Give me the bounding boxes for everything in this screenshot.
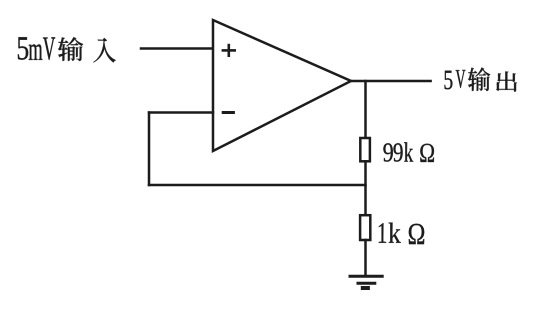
- label: 5V output text: [445, 68, 517, 92]
- op-amp plus pin marker: [223, 45, 235, 56]
- wire: R1 bottom through node A to R2: [364, 161, 367, 215]
- label: 1k ohm value: [379, 223, 424, 245]
- wire: R2 bottom to ground: [364, 240, 367, 276]
- label: 99k ohm value: [383, 142, 434, 162]
- op-amp minus pin marker: [223, 111, 233, 114]
- wire: inverting pin horizontal: [149, 111, 213, 114]
- label: 5mV input text: [18, 37, 116, 62]
- ground symbol: [350, 276, 382, 288]
- wire: op-amp output horizontal: [351, 80, 431, 83]
- resistor R2 1k body: [360, 215, 370, 240]
- wire: output junction down to R1: [364, 81, 367, 138]
- wire: feedback left vertical: [148, 113, 151, 186]
- resistor R1 99k body: [360, 138, 370, 161]
- wire: input to non-inverting pin: [141, 47, 213, 50]
- op-amp U1 triangle: [213, 20, 351, 151]
- wire: feedback bottom horizontal to node A: [149, 184, 366, 187]
